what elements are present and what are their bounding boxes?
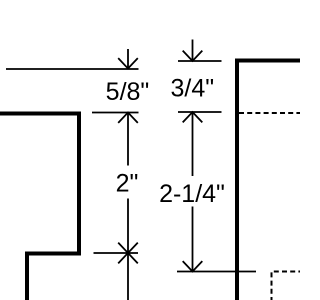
svg-text:5/8": 5/8" bbox=[106, 78, 150, 106]
svg-text:2-1/4": 2-1/4" bbox=[159, 180, 225, 208]
svg-text:2": 2" bbox=[116, 170, 139, 198]
svg-text:3/4": 3/4" bbox=[170, 75, 214, 103]
